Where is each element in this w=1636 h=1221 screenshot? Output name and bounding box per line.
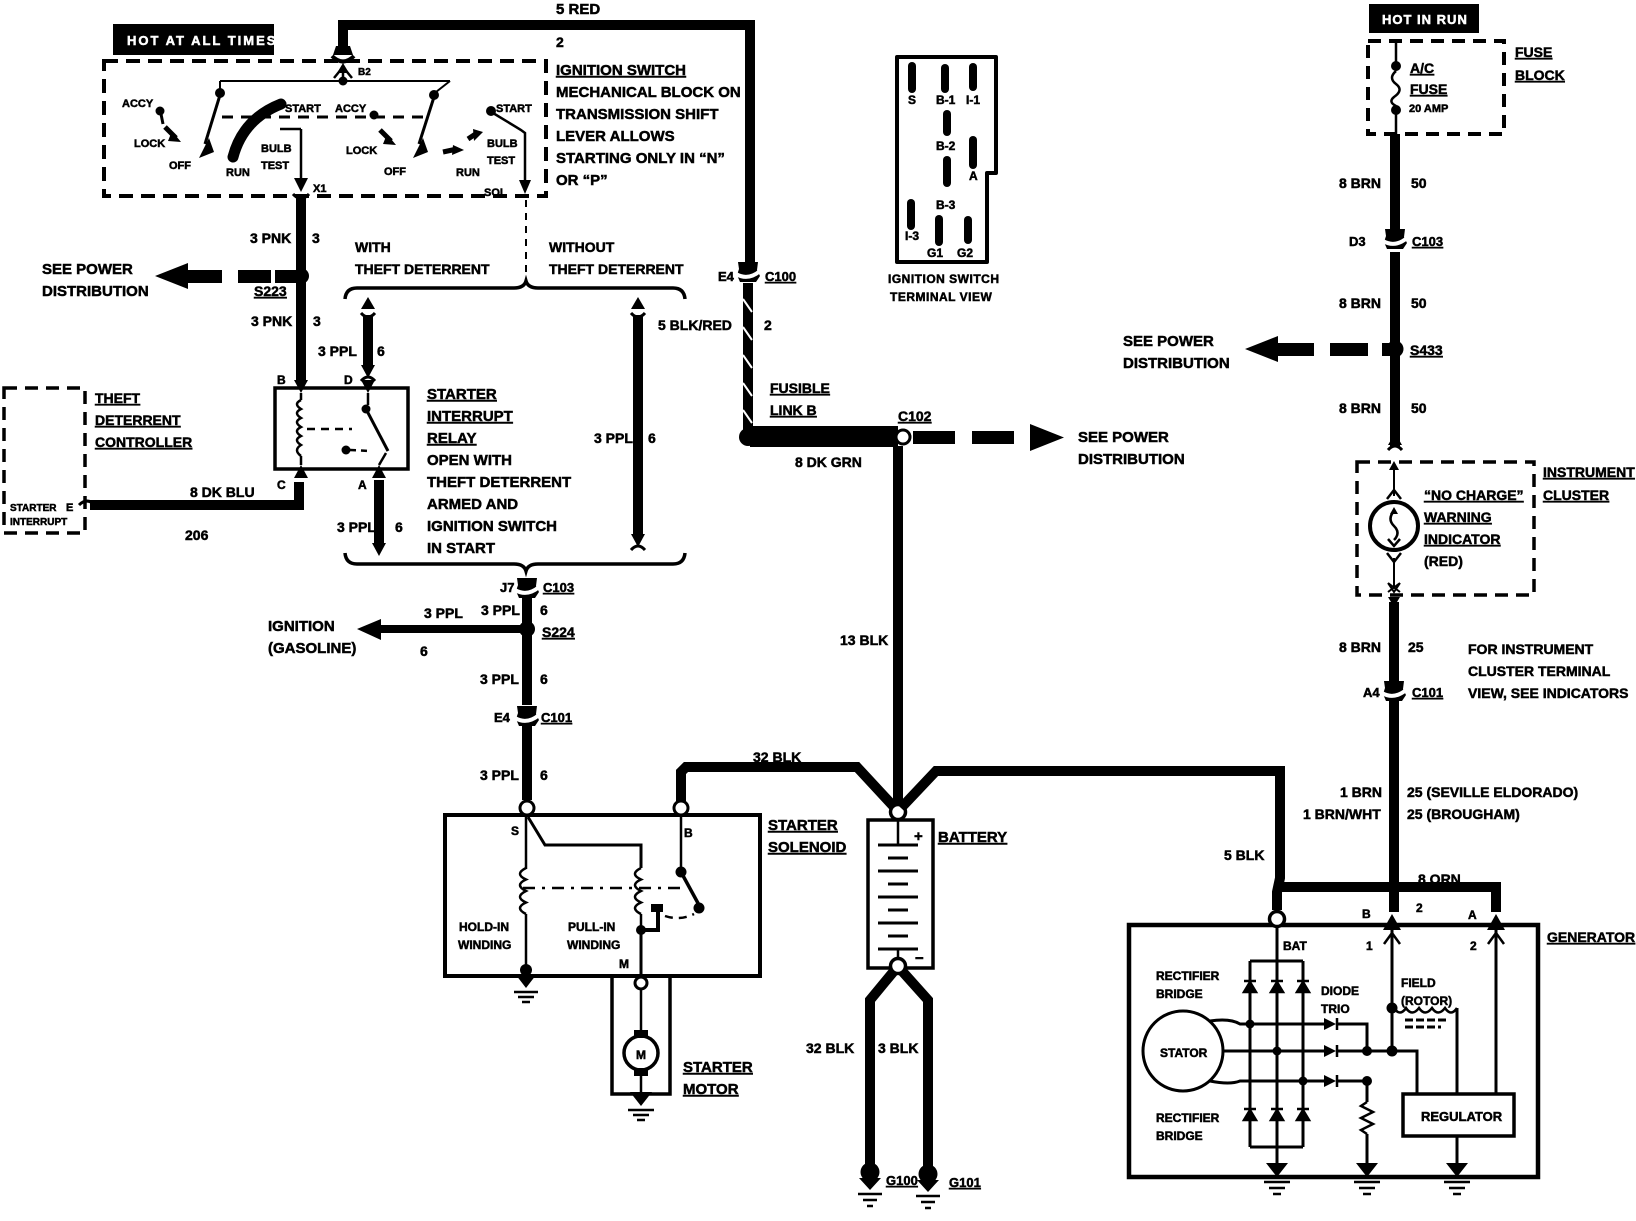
node battery positive junction	[891, 805, 906, 820]
svg-text:3 PPL: 3 PPL	[337, 519, 376, 535]
svg-text:IGNITION SWITCH: IGNITION SWITCH	[556, 62, 686, 79]
terminal BAT	[1270, 912, 1308, 954]
svg-text:C101: C101	[541, 710, 572, 725]
svg-text:FUSE: FUSE	[1410, 81, 1447, 97]
label HOLD-IN WINDING	[458, 920, 511, 952]
svg-text:2: 2	[1416, 901, 1423, 915]
connector C100 pin E4	[718, 262, 796, 284]
svg-text:SOL: SOL	[484, 187, 507, 199]
wire 8 BRN fuse to C103	[1390, 134, 1400, 230]
svg-text:STARTER: STARTER	[427, 386, 497, 403]
label FIELD (ROTOR)	[1401, 976, 1452, 1008]
label no charge warning indicator	[1424, 487, 1524, 569]
label RECTIFIER BRIDGE (upper)	[1156, 969, 1220, 1001]
fuse A/C 20 AMP	[1391, 43, 1448, 134]
pin B-2	[943, 110, 951, 136]
stator phase 2 wire and diode trio diode	[1223, 1045, 1391, 1057]
svg-text:BATTERY: BATTERY	[938, 829, 1007, 846]
terminal 1 (B)	[1362, 907, 1401, 953]
svg-text:INDICATOR: INDICATOR	[1424, 531, 1500, 547]
svg-text:50: 50	[1411, 400, 1427, 416]
svg-text:1 BRN: 1 BRN	[1340, 784, 1382, 800]
solenoid contact assembly	[636, 815, 705, 977]
svg-text:3 PPL: 3 PPL	[318, 343, 357, 359]
svg-text:C: C	[277, 478, 286, 492]
pin G1	[935, 215, 943, 246]
svg-text:G1: G1	[927, 246, 943, 260]
svg-text:BULB: BULB	[487, 138, 518, 150]
wire S to windings	[526, 817, 641, 869]
wire 3 PPL from C103 to S224	[522, 598, 532, 628]
connector B2 (ignition switch feed)	[332, 46, 371, 79]
svg-text:G100: G100	[886, 1173, 918, 1188]
svg-text:FUSIBLE: FUSIBLE	[770, 380, 830, 396]
node pivot 2	[429, 90, 439, 100]
pin A	[969, 136, 977, 169]
ground G101	[916, 1165, 981, 1209]
svg-text:ACCY: ACCY	[122, 98, 154, 110]
svg-text:THEFT: THEFT	[95, 390, 141, 406]
svg-text:2: 2	[556, 34, 564, 50]
svg-text:STARTER: STARTER	[10, 503, 57, 514]
svg-text:13 BLK: 13 BLK	[840, 632, 888, 648]
wire 8 BRN cluster to C101	[1388, 597, 1400, 681]
svg-text:ARMED AND: ARMED AND	[427, 496, 518, 513]
svg-text:ACCY: ACCY	[335, 103, 367, 115]
svg-text:STARTER: STARTER	[768, 817, 838, 834]
ground (starter motor)	[628, 1092, 654, 1120]
field rotor coil	[1394, 1008, 1457, 1094]
svg-text:A: A	[358, 478, 367, 492]
svg-text:1: 1	[1366, 939, 1373, 953]
label FUSIBLE LINK B	[770, 380, 830, 418]
svg-text:S224: S224	[542, 624, 575, 640]
svg-text:2: 2	[1470, 939, 1477, 953]
svg-text:THEFT DETERRENT: THEFT DETERRENT	[549, 261, 684, 277]
fuse block (dashed box)	[1368, 41, 1504, 134]
note instrument cluster terminal view	[1468, 641, 1629, 701]
svg-text:DIODE: DIODE	[1321, 984, 1359, 998]
label FUSE BLOCK	[1515, 44, 1565, 83]
label RECTIFIER BRIDGE (lower)	[1156, 1111, 1220, 1143]
regulator	[1403, 1094, 1514, 1136]
svg-text:VIEW, SEE INDICATORS: VIEW, SEE INDICATORS	[1468, 685, 1629, 701]
svg-text:INTERRUPT: INTERRUPT	[10, 517, 67, 528]
svg-text:X1: X1	[313, 183, 326, 195]
note see power distribution (C102)	[1078, 429, 1185, 468]
label HOT IN RUN	[1369, 4, 1479, 33]
wire lever 1	[205, 95, 220, 144]
svg-text:HOT IN RUN: HOT IN RUN	[1382, 12, 1468, 27]
svg-text:32 BLK: 32 BLK	[753, 749, 801, 765]
ground G100	[858, 1163, 918, 1207]
svg-text:TEST: TEST	[487, 155, 515, 167]
connector C102	[896, 408, 932, 444]
svg-text:D3: D3	[1349, 234, 1366, 249]
terminal 2 (A)	[1468, 908, 1505, 953]
starter motor	[624, 989, 658, 1092]
svg-text:PULL-IN: PULL-IN	[568, 920, 615, 934]
node pivot 1	[215, 88, 225, 98]
starter motor housing	[612, 977, 670, 1094]
wire 3 PPL to relay D	[361, 297, 375, 381]
svg-text:I-3: I-3	[905, 229, 919, 243]
ignition switch pole 1 (left)	[122, 81, 321, 179]
svg-text:8 ORN: 8 ORN	[1418, 871, 1461, 887]
svg-text:C101: C101	[1412, 685, 1443, 700]
resistor (diode trio bleed)	[1361, 1081, 1373, 1165]
svg-text:LINK B: LINK B	[770, 402, 817, 418]
svg-text:3 PPL: 3 PPL	[480, 767, 519, 783]
svg-text:3: 3	[313, 313, 321, 329]
svg-text:S433: S433	[1410, 342, 1443, 358]
node battery negative junction	[891, 959, 906, 974]
svg-text:6: 6	[648, 430, 656, 446]
note see power distribution (S433)	[1123, 333, 1230, 372]
note ignition (gasoline)	[268, 618, 356, 657]
svg-text:S223: S223	[254, 283, 287, 299]
svg-text:(GASOLINE): (GASOLINE)	[268, 640, 356, 657]
svg-text:E4: E4	[494, 710, 511, 725]
svg-text:S: S	[511, 824, 519, 838]
svg-text:3 PPL: 3 PPL	[481, 602, 520, 618]
svg-text:TRANSMISSION SHIFT: TRANSMISSION SHIFT	[556, 106, 719, 123]
label DIODE TRIO	[1321, 984, 1359, 1016]
svg-text:C100: C100	[765, 269, 796, 284]
svg-text:SEE POWER: SEE POWER	[1123, 333, 1214, 350]
svg-text:M: M	[619, 957, 629, 971]
label STARTER MOTOR	[683, 1059, 753, 1098]
wire lever 2	[419, 97, 434, 144]
wire START to SOL	[493, 113, 525, 184]
svg-text:2: 2	[764, 317, 772, 333]
svg-text:STATOR: STATOR	[1160, 1046, 1208, 1060]
hold-in winding coil	[520, 868, 526, 966]
diodes lower row	[1244, 1109, 1256, 1120]
note ignition switch mechanical block	[556, 62, 741, 189]
svg-text:RECTIFIER: RECTIFIER	[1156, 969, 1220, 983]
svg-text:LEVER ALLOWS: LEVER ALLOWS	[556, 128, 675, 145]
wire 5 BLK/RED without-theft branch	[631, 297, 645, 550]
svg-text:(RED): (RED)	[1424, 553, 1463, 569]
svg-text:WARNING: WARNING	[1424, 509, 1492, 525]
svg-text:WINDING: WINDING	[567, 938, 620, 952]
battery	[868, 820, 933, 968]
svg-text:TERMINAL VIEW: TERMINAL VIEW	[890, 290, 992, 304]
svg-text:20 AMP: 20 AMP	[1409, 103, 1448, 115]
svg-text:6: 6	[420, 643, 428, 659]
svg-text:+: +	[914, 828, 923, 845]
svg-text:6: 6	[540, 671, 548, 687]
svg-text:A4: A4	[1363, 685, 1380, 700]
wire 5 BLK/RED fusible link lead	[743, 283, 752, 432]
svg-text:HOT AT ALL TIMES: HOT AT ALL TIMES	[127, 33, 277, 48]
pin G2	[964, 216, 972, 244]
wire dashed internal (accessory rail)	[222, 116, 424, 119]
svg-text:BRIDGE: BRIDGE	[1156, 1129, 1203, 1143]
svg-text:TRIO: TRIO	[1321, 1002, 1350, 1016]
pin I-1	[969, 63, 977, 91]
svg-text:8 BRN: 8 BRN	[1339, 400, 1381, 416]
svg-text:C102: C102	[898, 408, 932, 424]
wire 5 RED from B2 to C100	[343, 25, 750, 262]
svg-text:START: START	[285, 103, 321, 115]
starter interrupt relay	[275, 373, 408, 492]
wire 3 PNK from X1 to S223	[296, 198, 306, 382]
contact arc RUN-to-START	[233, 104, 281, 157]
svg-text:B: B	[1362, 907, 1371, 921]
label WITH THEFT DETERRENT	[355, 239, 490, 277]
wire dashed arrow to power distribution (S433)	[1245, 336, 1392, 362]
svg-text:THEFT DETERRENT: THEFT DETERRENT	[427, 474, 571, 491]
svg-text:B: B	[277, 373, 286, 387]
terminal S (solenoid)	[511, 801, 534, 838]
svg-text:CLUSTER TERMINAL: CLUSTER TERMINAL	[1468, 663, 1611, 679]
pin B-3	[943, 156, 951, 187]
diodes upper row	[1244, 981, 1256, 992]
svg-text:6: 6	[540, 767, 548, 783]
svg-text:BRIDGE: BRIDGE	[1156, 987, 1203, 1001]
wire dashed armature link	[523, 887, 681, 890]
wire 8 BRN S433 to cluster	[1390, 349, 1400, 447]
wire regulator to ground	[1456, 1136, 1459, 1165]
svg-text:MOTOR: MOTOR	[683, 1081, 739, 1098]
ignition switch assembly (dashed enclosure)	[104, 61, 546, 196]
svg-text:IGNITION SWITCH: IGNITION SWITCH	[888, 272, 1000, 286]
svg-text:J7: J7	[500, 580, 514, 595]
svg-text:FUSE: FUSE	[1515, 44, 1552, 60]
svg-text:FIELD: FIELD	[1401, 976, 1436, 990]
svg-text:3: 3	[312, 230, 320, 246]
brace lower (join)	[345, 553, 685, 571]
pin B-1	[941, 64, 949, 93]
svg-text:REGULATOR: REGULATOR	[1421, 1109, 1503, 1124]
svg-text:OR “P”: OR “P”	[556, 172, 608, 189]
svg-text:TEST: TEST	[261, 160, 289, 172]
ignition switch pole 2 (right)	[335, 81, 532, 282]
terminal B (solenoid)	[674, 801, 693, 840]
stator	[1143, 1011, 1223, 1091]
svg-text:M: M	[636, 1048, 646, 1062]
svg-text:6: 6	[377, 343, 385, 359]
svg-text:I-1: I-1	[966, 93, 980, 107]
svg-text:CLUSTER: CLUSTER	[1543, 487, 1609, 503]
svg-text:D: D	[344, 373, 353, 387]
no charge warning indicator lamp	[1370, 461, 1418, 592]
pin S	[908, 62, 916, 93]
svg-text:3 PNK: 3 PNK	[250, 230, 291, 246]
ground (hold-in winding)	[514, 964, 538, 1002]
svg-text:LOCK: LOCK	[134, 138, 165, 150]
svg-text:8 BRN: 8 BRN	[1339, 639, 1381, 655]
wire 13 BLK	[893, 446, 903, 804]
svg-text:SOLENOID: SOLENOID	[768, 839, 847, 856]
svg-text:RELAY: RELAY	[427, 430, 476, 447]
label PULL-IN WINDING	[567, 920, 620, 952]
svg-text:IGNITION SWITCH: IGNITION SWITCH	[427, 518, 557, 535]
ground (resistor)	[1354, 1163, 1380, 1194]
svg-text:“NO CHARGE”: “NO CHARGE”	[1424, 487, 1524, 503]
wire 1 BRN C101 to generator 1	[1389, 699, 1399, 912]
note see power distribution (S223)	[42, 261, 149, 300]
pull-in winding coil	[635, 868, 641, 930]
svg-text:8 BRN: 8 BRN	[1339, 175, 1381, 191]
wire 3 PPL relay A down	[374, 480, 384, 545]
svg-text:C103: C103	[1412, 234, 1443, 249]
svg-text:25 (SEVILLE ELDORADO): 25 (SEVILLE ELDORADO)	[1407, 784, 1578, 800]
wire terminal 2 to regulator	[1495, 930, 1498, 1094]
svg-text:G2: G2	[957, 246, 973, 260]
svg-text:B: B	[684, 826, 693, 840]
wire terminal 1 to field node	[1387, 930, 1398, 1057]
connector C103 pin J7	[500, 578, 574, 598]
wire 3 BLK battery to G101	[902, 971, 928, 1168]
splice S224	[519, 621, 575, 640]
wire 8 DK BLU controller to relay C	[79, 482, 299, 505]
svg-text:BULB: BULB	[261, 143, 292, 155]
svg-text:RUN: RUN	[226, 167, 250, 179]
label theft deterrent controller	[95, 390, 192, 450]
terminal M (solenoid)	[619, 957, 647, 989]
svg-text:MECHANICAL BLOCK ON: MECHANICAL BLOCK ON	[556, 84, 741, 101]
svg-text:−: −	[915, 950, 924, 967]
svg-text:E4: E4	[718, 269, 735, 284]
svg-text:3 PPL: 3 PPL	[594, 430, 633, 446]
svg-text:8 DK GRN: 8 DK GRN	[795, 454, 862, 470]
svg-text:LOCK: LOCK	[346, 145, 377, 157]
svg-text:WITHOUT: WITHOUT	[549, 239, 615, 255]
svg-text:C103: C103	[543, 580, 574, 595]
ground (regulator)	[1444, 1163, 1470, 1194]
terminal into cluster	[1388, 433, 1402, 445]
svg-text:A: A	[969, 169, 978, 183]
svg-text:OFF: OFF	[169, 160, 191, 172]
svg-text:25 (BROUGHAM): 25 (BROUGHAM)	[1407, 806, 1520, 822]
svg-text:BAT: BAT	[1283, 939, 1307, 953]
svg-text:OFF: OFF	[384, 166, 406, 178]
wire 8 ORN to generator A	[1276, 887, 1496, 912]
stator phase 1 wire and diode trio diode	[1210, 1018, 1367, 1047]
splice S223	[254, 268, 309, 299]
svg-text:32 BLK: 32 BLK	[806, 1040, 854, 1056]
fusible link B (thick bar)	[750, 426, 898, 447]
theft deterrent controller (dashed box)	[4, 388, 85, 533]
svg-text:B-3: B-3	[936, 198, 956, 212]
connector C103 pin D3	[1349, 229, 1443, 249]
svg-text:206: 206	[185, 527, 209, 543]
svg-text:A: A	[1468, 908, 1477, 922]
label WITHOUT THEFT DETERRENT	[549, 239, 684, 277]
svg-text:RUN: RUN	[456, 167, 480, 179]
svg-text:B-1: B-1	[936, 93, 956, 107]
svg-text:DISTRIBUTION: DISTRIBUTION	[42, 283, 149, 300]
wire arrow to ignition (gasoline)	[357, 619, 527, 640]
svg-text:BLOCK: BLOCK	[1515, 67, 1565, 83]
svg-text:3 BLK: 3 BLK	[878, 1040, 918, 1056]
label INSTRUMENT CLUSTER	[1543, 464, 1635, 503]
svg-text:8 DK BLU: 8 DK BLU	[190, 484, 255, 500]
svg-text:25: 25	[1408, 639, 1424, 655]
svg-text:INTERRUPT: INTERRUPT	[427, 408, 513, 425]
svg-text:OPEN WITH: OPEN WITH	[427, 452, 512, 469]
svg-text:5 BLK: 5 BLK	[1224, 847, 1264, 863]
instrument cluster (dashed box)	[1357, 462, 1534, 595]
svg-text:3 PNK: 3 PNK	[251, 313, 292, 329]
svg-text:A/C: A/C	[1410, 60, 1434, 76]
label HOT AT ALL TIMES	[113, 24, 277, 55]
svg-text:RECTIFIER: RECTIFIER	[1156, 1111, 1220, 1125]
svg-text:5 BLK/RED: 5 BLK/RED	[658, 317, 732, 333]
svg-text:(ROTOR): (ROTOR)	[1401, 994, 1452, 1008]
svg-text:START: START	[496, 103, 532, 115]
wire 32 BLK solenoid B to battery	[681, 767, 895, 808]
ground (rectifier bridge)	[1264, 1163, 1290, 1194]
wire 32 BLK battery to G100	[870, 971, 894, 1166]
svg-text:GENERATOR: GENERATOR	[1547, 929, 1635, 945]
svg-text:6: 6	[395, 519, 403, 535]
svg-text:DETERRENT: DETERRENT	[95, 412, 181, 428]
node fusible link splice	[739, 428, 757, 446]
svg-text:50: 50	[1411, 295, 1427, 311]
stator phase 3 wire and diode trio diode	[1210, 1075, 1372, 1087]
svg-text:B-2: B-2	[936, 139, 956, 153]
brace upper (alternatives)	[345, 281, 685, 299]
connector C101 pin E4	[494, 706, 572, 726]
svg-text:E: E	[66, 502, 73, 514]
svg-text:B2: B2	[358, 67, 371, 78]
connector X1	[280, 129, 326, 199]
relay contact	[367, 393, 370, 405]
splice S433	[1387, 341, 1443, 359]
svg-text:8 BRN: 8 BRN	[1339, 295, 1381, 311]
svg-text:6: 6	[540, 602, 548, 618]
svg-text:3 PPL: 3 PPL	[424, 605, 463, 621]
wire dashed SOL drop	[525, 200, 527, 282]
svg-text:S: S	[908, 93, 916, 107]
wire 3 PPL from C101 to solenoid S	[522, 725, 532, 800]
pin I-3	[907, 199, 915, 230]
ignition switch terminal view	[888, 57, 1000, 304]
svg-text:50: 50	[1411, 175, 1427, 191]
svg-text:WITH: WITH	[355, 239, 391, 255]
svg-text:THEFT DETERRENT: THEFT DETERRENT	[355, 261, 490, 277]
svg-text:5 RED: 5 RED	[556, 1, 600, 18]
relay coil	[300, 393, 303, 465]
starter solenoid	[445, 815, 760, 976]
svg-text:IN START: IN START	[427, 540, 495, 557]
wire 5 BLK battery to generator BAT	[901, 771, 1280, 910]
wire 3 PPL from S224 to C101	[522, 629, 532, 705]
svg-text:SEE POWER: SEE POWER	[42, 261, 133, 278]
wire 8 BRN C103 to S433	[1390, 252, 1400, 345]
svg-text:3 PPL: 3 PPL	[480, 671, 519, 687]
svg-text:SEE POWER: SEE POWER	[1078, 429, 1169, 446]
svg-text:STARTING ONLY IN “N”: STARTING ONLY IN “N”	[556, 150, 725, 167]
rectifier bridge network	[1244, 926, 1309, 1165]
svg-text:DISTRIBUTION: DISTRIBUTION	[1078, 451, 1185, 468]
svg-text:HOLD-IN: HOLD-IN	[459, 920, 509, 934]
svg-text:FOR INSTRUMENT: FOR INSTRUMENT	[1468, 641, 1594, 657]
wire dashed arrow to power distribution	[155, 263, 297, 289]
note starter interrupt relay	[427, 386, 571, 557]
svg-text:DISTRIBUTION: DISTRIBUTION	[1123, 355, 1230, 372]
wire dashed to power distribution	[913, 424, 1064, 451]
label STARTER SOLENOID	[768, 817, 847, 856]
svg-text:WINDING: WINDING	[458, 938, 511, 952]
wire internal rail of ignition switch	[220, 72, 450, 86]
svg-text:IGNITION: IGNITION	[268, 618, 335, 635]
svg-text:G101: G101	[949, 1175, 981, 1190]
